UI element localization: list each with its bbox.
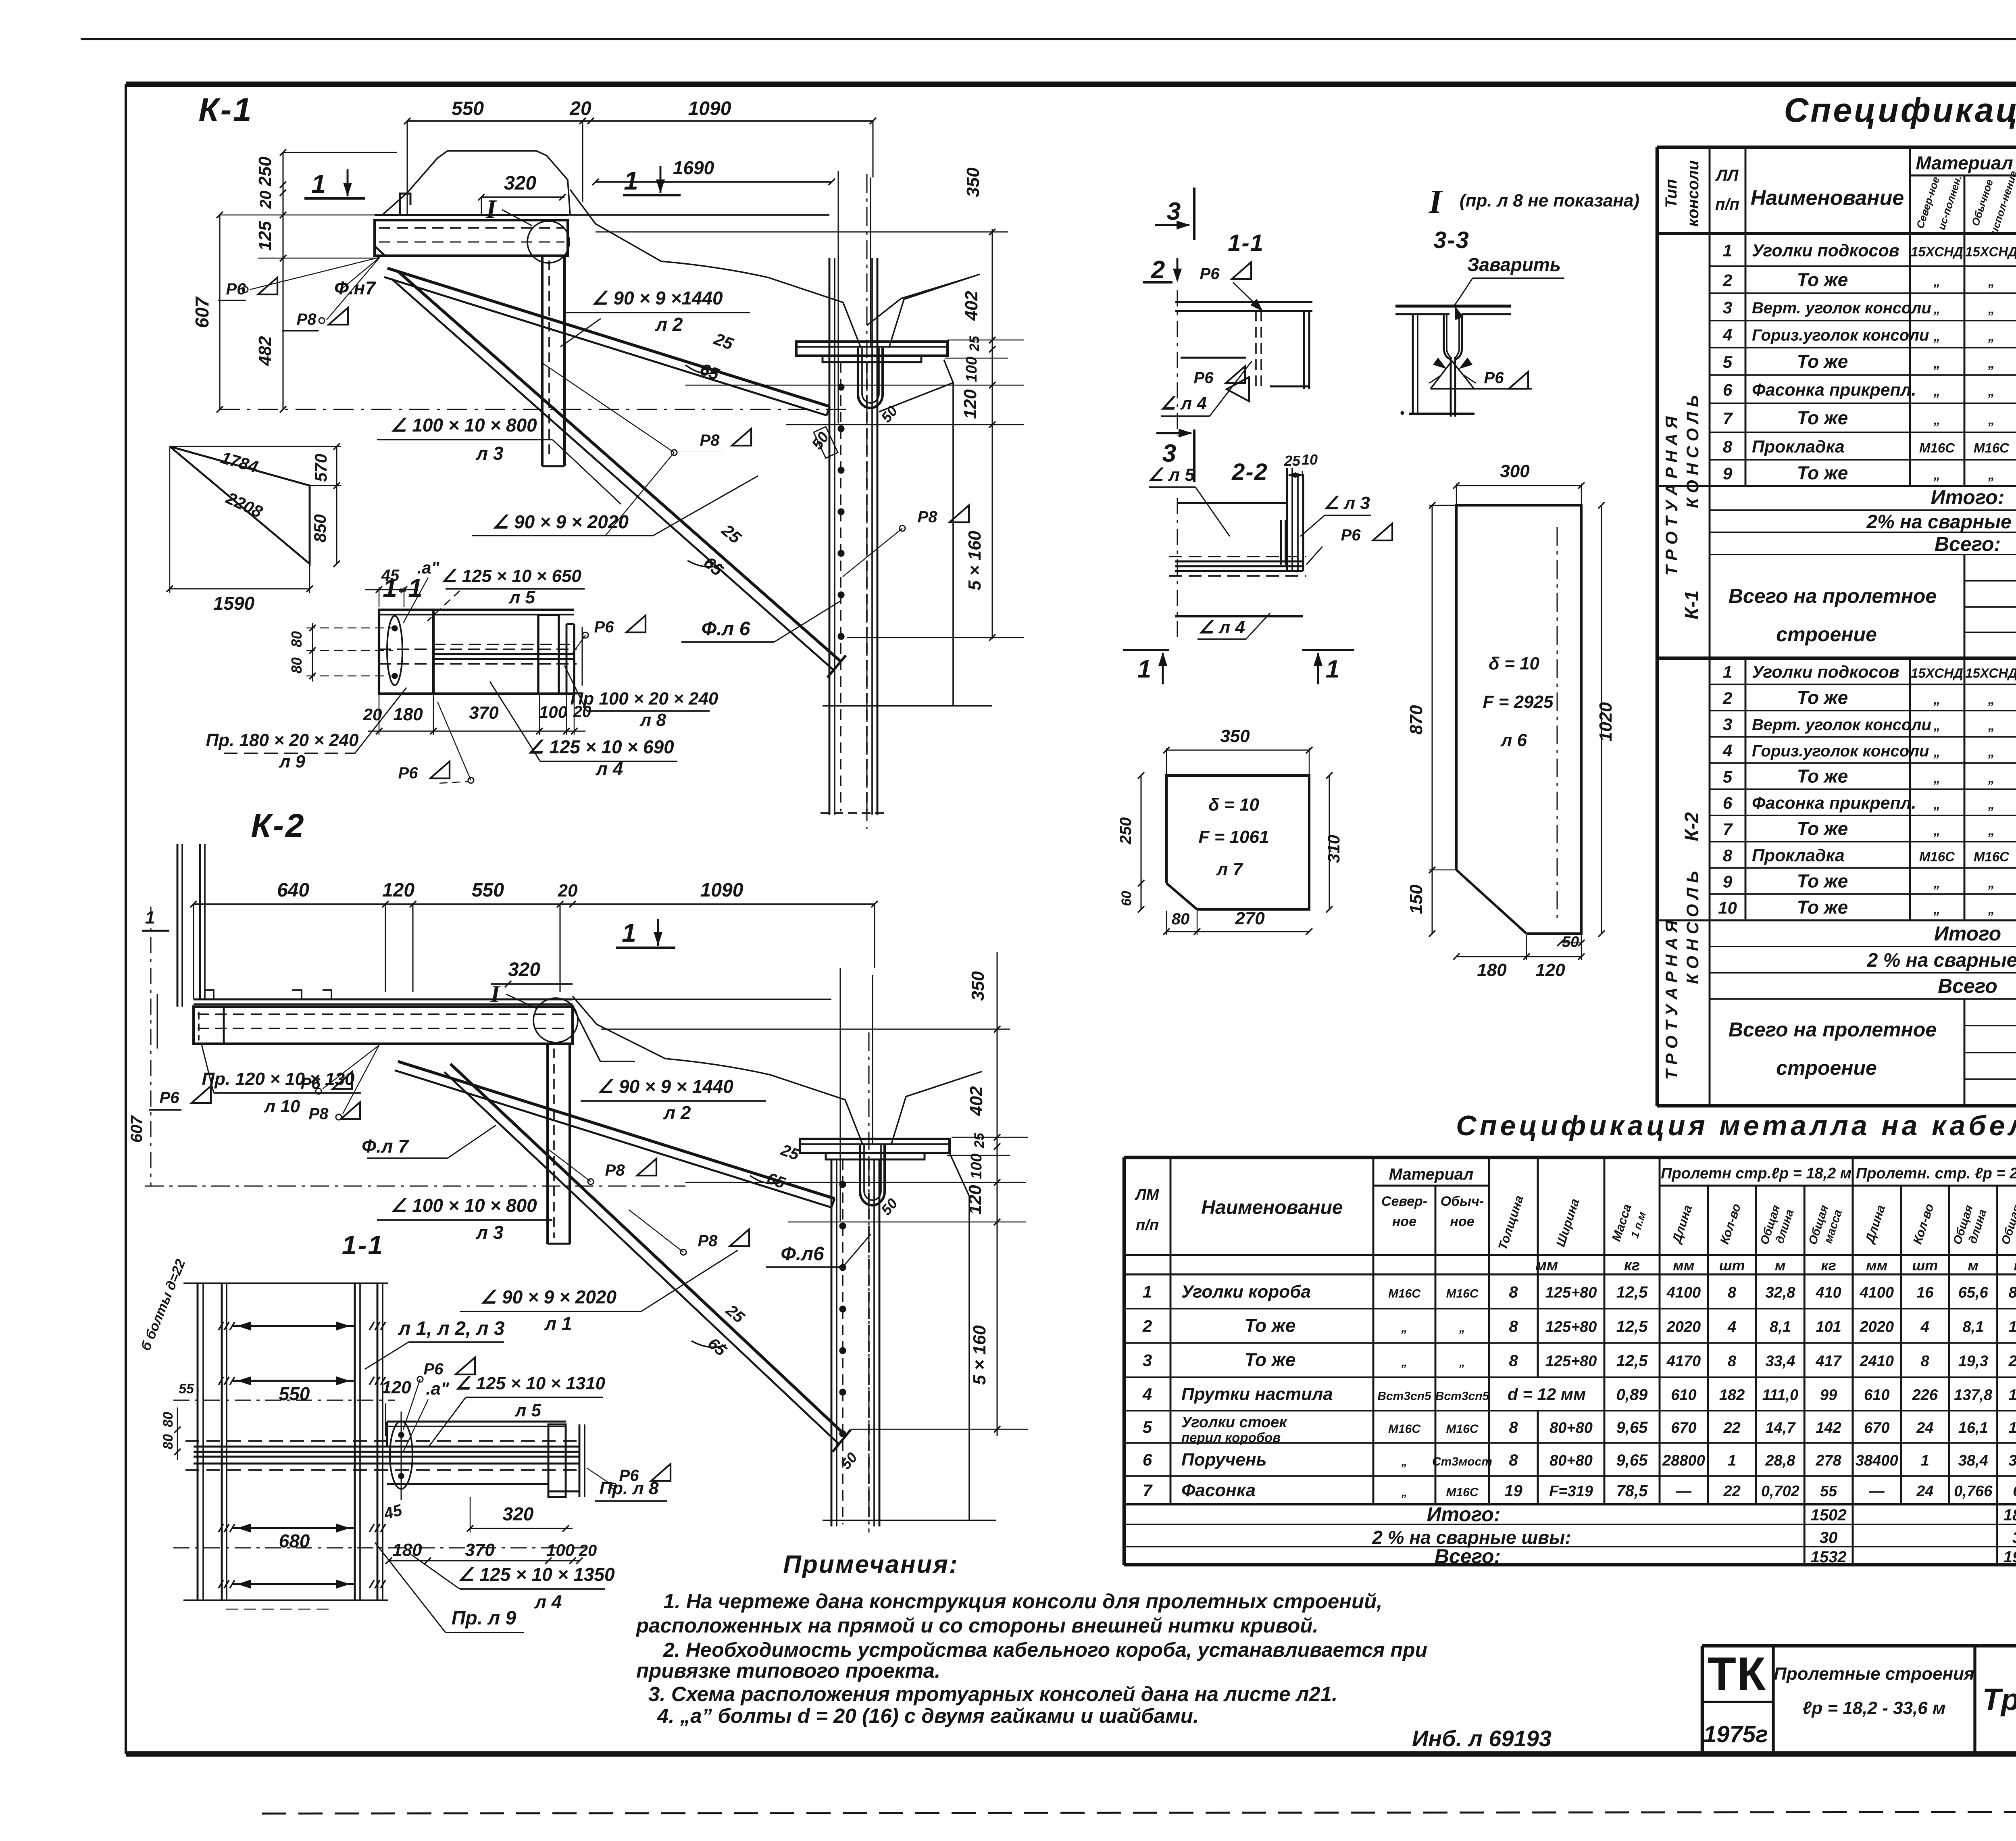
svg-text:850: 850	[310, 514, 329, 542]
svg-text:270: 270	[1235, 909, 1265, 928]
fasonka dims	[336, 446, 337, 564]
svg-text:300: 300	[1500, 461, 1530, 481]
svg-text:М16С: М16С	[1388, 1422, 1421, 1436]
svg-text:1-1: 1-1	[342, 1230, 384, 1260]
svg-text:402: 402	[962, 291, 981, 321]
svg-text:125+80: 125+80	[1545, 1353, 1597, 1370]
svg-text:100: 100	[968, 1153, 985, 1179]
svg-text:Ф.л 7: Ф.л 7	[362, 1136, 409, 1157]
svg-text:Т Р О Т У А Р Н А Я: Т Р О Т У А Р Н А Я	[1662, 416, 1681, 575]
K-2 vertical angle N3	[546, 1044, 549, 1244]
svg-text:1690: 1690	[673, 157, 714, 178]
3-3 center welded verticals	[1444, 314, 1451, 359]
K-1 horizontal extension lines	[596, 231, 1008, 232]
K-1 post bolt dots	[838, 384, 844, 390]
svg-text:1: 1	[624, 166, 638, 195]
K-2 leader fan	[323, 1045, 379, 1089]
svg-text:К-1: К-1	[1681, 590, 1703, 619]
svg-text:∠ л 5: ∠ л 5	[1148, 465, 1195, 485]
svg-text:8: 8	[1723, 437, 1733, 456]
svg-text:4: 4	[1722, 325, 1732, 344]
svg-text:123: 123	[2009, 1387, 2016, 1404]
svg-text:80: 80	[288, 631, 305, 647]
svg-text:I: I	[490, 981, 501, 1007]
svg-text:Вст3сп5: Вст3сп5	[1377, 1390, 1432, 1403]
svg-text:25: 25	[972, 1132, 987, 1149]
svg-text:м: м	[1968, 1257, 1979, 1274]
svg-text:20: 20	[579, 1542, 597, 1560]
svg-text:То же: То же	[1797, 687, 1848, 708]
svg-text:„: „	[1401, 1486, 1408, 1499]
svg-text:F=319: F=319	[1549, 1483, 1593, 1500]
K-2 lower diagonal N1	[450, 1064, 846, 1436]
svg-text:I: I	[1429, 183, 1443, 221]
svg-text:Прокладка: Прокладка	[1752, 437, 1845, 457]
svg-text:180: 180	[1477, 960, 1507, 980]
svg-text:М16С: М16С	[1388, 1287, 1421, 1301]
svg-text:То же: То же	[1245, 1315, 1296, 1336]
svg-text:ЛМ: ЛМ	[1135, 1186, 1160, 1203]
svg-text:„: „	[1988, 356, 1995, 371]
svg-text:182: 182	[1719, 1387, 1745, 1404]
svg-text:„: „	[1933, 412, 1941, 427]
svg-text:2: 2	[1142, 1317, 1152, 1336]
svg-text:350: 350	[1220, 726, 1250, 746]
svg-text:100: 100	[963, 357, 980, 382]
svg-text:„: „	[1988, 876, 1995, 890]
svg-text:370: 370	[465, 1540, 495, 1560]
svg-text:л 2: л 2	[663, 1102, 691, 1123]
1-1K2 bottom edge lines	[183, 1599, 388, 1601]
svg-text:∠ л 3: ∠ л 3	[1323, 493, 1370, 513]
svg-text:870: 870	[1406, 705, 1426, 735]
svg-text:„: „	[1933, 692, 1941, 707]
svg-text:8: 8	[1728, 1353, 1737, 1370]
svg-text:Уголки короба: Уголки короба	[1181, 1282, 1311, 1302]
svg-text:410: 410	[1815, 1284, 1841, 1301]
svg-text:120: 120	[965, 1185, 985, 1215]
svg-text:То же: То же	[1797, 766, 1848, 787]
svg-text:670: 670	[1671, 1420, 1696, 1437]
svg-text:ное: ное	[1392, 1214, 1416, 1229]
1-1K2 deck band	[194, 1446, 579, 1448]
svg-text:15ХСНД: 15ХСНД	[1911, 244, 1963, 259]
svg-text:80: 80	[288, 657, 305, 673]
svg-text:„: „	[1933, 384, 1941, 398]
svg-text:Пролетн стр.ℓр = 18,2 м: Пролетн стр.ℓр = 18,2 м	[1661, 1165, 1851, 1182]
K-2 girder funnel outline above cap	[665, 1059, 863, 1145]
K-1 girder top contour right of deck	[570, 190, 661, 261]
svg-text:80: 80	[160, 1412, 176, 1427]
svg-text:8: 8	[1728, 1284, 1737, 1301]
svg-text:80: 80	[1172, 910, 1190, 928]
3-3 left web	[1412, 314, 1414, 413]
paper top edge line	[81, 38, 2016, 40]
svg-text:8: 8	[1921, 1353, 1930, 1370]
svg-text:кг: кг	[1821, 1257, 1836, 1274]
svg-text:1532: 1532	[1811, 1548, 1847, 1566]
svg-text:80: 80	[160, 1434, 176, 1449]
svg-text:Пр. л 9: Пр. л 9	[452, 1607, 516, 1629]
svg-text:∠ л 4: ∠ л 4	[1198, 617, 1245, 637]
svg-text:Р8: Р8	[698, 1232, 718, 1250]
svg-text:Р6: Р6	[1200, 265, 1220, 283]
svg-text:28800: 28800	[1662, 1452, 1705, 1469]
svg-text:М16С: М16С	[1446, 1287, 1479, 1301]
svg-text:2: 2	[1722, 271, 1732, 290]
svg-text:Инб. л 69193: Инб. л 69193	[1412, 1726, 1552, 1751]
svg-text:Гориз.уголок консоли: Гориз.уголок консоли	[1752, 327, 1929, 344]
svg-text:(пр. л 8 не показана): (пр. л 8 не показана)	[1460, 191, 1639, 211]
K-2 girder top flange line	[573, 999, 831, 1000]
K-1 deck plate	[375, 214, 568, 216]
1-1K1 top plates	[379, 609, 574, 611]
svg-text:2020: 2020	[1859, 1319, 1894, 1336]
svg-text:7: 7	[1723, 820, 1733, 839]
svg-text:33,4: 33,4	[1765, 1353, 1795, 1370]
svg-text:2: 2	[1722, 689, 1732, 708]
svg-text:38,4: 38,4	[1958, 1452, 1988, 1469]
svg-text:„: „	[1988, 771, 1995, 786]
1-1K1 horizontal band	[433, 644, 574, 645]
svg-text:δ = 10: δ = 10	[1489, 654, 1539, 673]
svg-text:Р6: Р6	[398, 764, 419, 782]
svg-text:9,65: 9,65	[1616, 1451, 1648, 1469]
K-2 top dim chain 640 120 550 20 1090	[194, 903, 875, 905]
svg-text:То же: То же	[1245, 1349, 1296, 1370]
svg-text:417: 417	[1815, 1353, 1842, 1370]
svg-text:л 5: л 5	[508, 588, 535, 607]
svg-text:л 1, л 2, л 3: л 1, л 2, л 3	[398, 1318, 504, 1339]
svg-text:∠ 125 × 10 × 1310: ∠ 125 × 10 × 1310	[455, 1374, 606, 1393]
svg-text:„: „	[1401, 1322, 1408, 1335]
K-1 diagonal brace N2 (L90x9x1440)	[387, 268, 830, 407]
svg-text:„: „	[1933, 902, 1941, 917]
1-1K1 left plate with slot	[379, 610, 433, 694]
svg-text:1: 1	[1137, 655, 1151, 683]
svg-text:3: 3	[1143, 1351, 1152, 1370]
svg-text:100: 100	[539, 703, 567, 721]
svg-text:12,5: 12,5	[1616, 1284, 1648, 1301]
K-2 upper diagonal N2	[398, 1061, 835, 1199]
svg-text:65,6: 65,6	[1958, 1284, 1989, 1301]
svg-text:„: „	[1401, 1455, 1408, 1468]
svg-text:„: „	[1933, 823, 1941, 838]
svg-text:10: 10	[1718, 899, 1737, 917]
plate L6 drawing	[1456, 505, 1581, 934]
1-1K2 top edge	[183, 1282, 388, 1284]
svg-text:К-1: К-1	[198, 92, 253, 128]
svg-text:Пр 100 × 20 × 240: Пр 100 × 20 × 240	[571, 689, 719, 709]
svg-text:ТК: ТК	[1708, 1647, 1766, 1700]
1-1K2 left rails	[197, 1282, 199, 1600]
svg-text:л 4: л 4	[534, 1591, 562, 1612]
svg-text:24: 24	[1916, 1483, 1933, 1500]
svg-text:Фасонка прикрепл.: Фасонка прикрепл.	[1752, 380, 1916, 400]
svg-text:2020: 2020	[1666, 1319, 1701, 1336]
plate L7 drawing	[1166, 776, 1309, 909]
K-2 post bolt dots	[839, 1181, 846, 1188]
svg-text:„: „	[1933, 718, 1941, 733]
svg-text:250: 250	[255, 156, 275, 187]
svg-text:л 8: л 8	[639, 710, 666, 730]
svg-text:16,1: 16,1	[1958, 1420, 1988, 1437]
svg-text:Вст3сп5: Вст3сп5	[1435, 1390, 1490, 1403]
K-2 vertical extension lines above cap	[839, 968, 841, 1221]
svg-text:Верт. уголок консоли: Верт. уголок консоли	[1752, 299, 1931, 317]
K-2 U-bolt	[860, 1145, 885, 1205]
1-1K2 bolt arrow rows	[232, 1325, 355, 1327]
svg-text:1502: 1502	[1811, 1506, 1847, 1524]
svg-text:0,702: 0,702	[1761, 1483, 1799, 1500]
svg-text:строение: строение	[1776, 1057, 1877, 1079]
K-2 left overhang dims	[156, 994, 158, 1049]
svg-text:∠ 125 × 10 × 690: ∠ 125 × 10 × 690	[527, 736, 674, 757]
paper bottom dashed edge line	[262, 1812, 2016, 1814]
svg-text:Итого:: Итого:	[1427, 1503, 1501, 1526]
svg-text:120: 120	[382, 880, 414, 901]
svg-text:М16С: М16С	[1446, 1486, 1479, 1499]
svg-text:1: 1	[1728, 1452, 1736, 1469]
svg-text:Спецификация металла на каб: Спецификация металла на кабельные короба	[1456, 1110, 2016, 1141]
svg-text:Фасонка прикрепл.: Фасонка прикрепл.	[1752, 794, 1916, 813]
svg-text:640: 640	[277, 880, 309, 901]
svg-text:„: „	[1988, 718, 1995, 733]
svg-text:привязке типового проекта.: привязке типового проекта.	[636, 1659, 940, 1682]
svg-text:То же: То же	[1797, 407, 1848, 428]
svg-text:3-3: 3-3	[1433, 227, 1470, 253]
K-1 deck slab outline (hump)	[382, 151, 570, 215]
K-1 dim 1690	[596, 181, 832, 183]
svg-text:80+80: 80+80	[1549, 1452, 1593, 1469]
svg-text:142: 142	[1816, 1420, 1841, 1437]
svg-text:„: „	[1933, 467, 1941, 482]
TK cell	[1702, 1701, 1773, 1703]
svg-text:5 × 160: 5 × 160	[965, 530, 985, 590]
svg-text:Пр. 180 × 20 × 240: Пр. 180 × 20 × 240	[206, 730, 359, 750]
svg-text:л 5: л 5	[514, 1401, 541, 1420]
K-2 right dim chain	[996, 952, 998, 1436]
svg-text:402: 402	[966, 1086, 986, 1116]
svg-text:241: 241	[2008, 1353, 2016, 1370]
svg-text:16: 16	[1916, 1284, 1934, 1301]
svg-text:Спецификация металла: Спецификация металла	[1784, 91, 2016, 129]
svg-text:45: 45	[381, 567, 400, 584]
fasonka plate diagram	[170, 446, 310, 564]
svg-text:1090: 1090	[700, 880, 744, 901]
svg-text:„: „	[1988, 301, 1995, 316]
svg-text:∠ 100 × 10 × 800: ∠ 100 × 10 × 800	[390, 1195, 537, 1216]
svg-text:„: „	[1933, 771, 1941, 786]
K-1 U-bolt under cap	[858, 348, 883, 408]
svg-text:100: 100	[546, 1541, 575, 1560]
svg-text:55: 55	[1820, 1483, 1837, 1500]
svg-text:4170: 4170	[1666, 1353, 1701, 1370]
K-2 girder post verticals	[831, 1159, 833, 1526]
svg-text:14,7: 14,7	[1765, 1420, 1796, 1437]
svg-text:4: 4	[1722, 741, 1732, 760]
svg-text:расположенных на прямой и: расположенных на прямой и со стороны вне…	[635, 1614, 1318, 1637]
1-1K1 bottom dims 20 180 370 100 20	[368, 730, 585, 732]
svg-text:Итого:: Итого:	[1931, 486, 2005, 509]
svg-text:7: 7	[1143, 1481, 1153, 1500]
svg-text:1: 1	[1921, 1452, 1929, 1469]
svg-text:Р6: Р6	[301, 1075, 321, 1093]
svg-text:мм: мм	[1866, 1257, 1887, 1274]
3-3 drawing flange	[1395, 304, 1511, 307]
svg-text:„: „	[1988, 902, 1995, 917]
svg-text:610: 610	[1671, 1387, 1696, 1404]
svg-text:2. Необходимость устройства: 2. Необходимость устройства кабельного к…	[663, 1639, 1427, 1661]
svg-text:22: 22	[1723, 1483, 1740, 1500]
K-2 girder outline upper right	[573, 996, 665, 1059]
svg-text:„: „	[1988, 412, 1995, 427]
svg-text:Р6: Р6	[1194, 369, 1214, 387]
svg-text:180: 180	[393, 705, 423, 724]
svg-text:То же: То же	[1797, 269, 1848, 290]
svg-text:То же: То же	[1797, 818, 1848, 839]
svg-text:155: 155	[2009, 1420, 2016, 1437]
svg-text:0,89: 0,89	[1616, 1386, 1648, 1404]
svg-text:d = 12 мм: d = 12 мм	[1508, 1385, 1586, 1404]
svg-text:9,65: 9,65	[1616, 1419, 1648, 1437]
svg-text:371: 371	[2009, 1452, 2016, 1469]
svg-text:9: 9	[1723, 464, 1733, 483]
1-1K2 right bracket	[387, 1421, 566, 1423]
svg-text:„: „	[1988, 744, 1995, 759]
svg-text:—: —	[1676, 1483, 1692, 1500]
svg-text:38400: 38400	[1856, 1452, 1898, 1469]
svg-text:Т Р О Т У А Р Н А Я: Т Р О Т У А Р Н А Я	[1662, 920, 1681, 1080]
svg-text:1: 1	[1723, 241, 1732, 260]
mid 2-2 drawing	[1177, 502, 1288, 504]
K-1 top dim chain 550-20-1090	[407, 120, 873, 122]
1-1K2 centerlines	[173, 1399, 395, 1401]
svg-text:670: 670	[1864, 1420, 1889, 1437]
svg-text:К-2: К-2	[251, 807, 305, 844]
K-1 vertical extension lines above cap	[837, 171, 839, 423]
svg-text:6: 6	[1723, 380, 1733, 399]
svg-text:.а": .а"	[417, 558, 440, 577]
3-3 weld arrows	[1429, 375, 1441, 383]
K-1 girder web outline	[867, 277, 973, 325]
svg-text:350: 350	[963, 167, 983, 197]
K-2 horizontal extension lines	[601, 1028, 1010, 1030]
svg-text:мм: мм	[1673, 1257, 1694, 1274]
svg-text:„: „	[1933, 301, 1941, 316]
svg-text:Тип: Тип	[1662, 179, 1680, 208]
svg-text:∠ л 4: ∠ л 4	[1160, 394, 1207, 413]
K-2 wall base angles	[205, 990, 214, 999]
svg-text:180: 180	[392, 1540, 422, 1560]
svg-text:∠ 90 × 9 × 2020: ∠ 90 × 9 × 2020	[480, 1286, 616, 1307]
svg-text:3. Схема расположения тротуа: 3. Схема расположения тротуарных консоле…	[648, 1683, 1337, 1705]
svg-text:Поручень: Поручень	[1181, 1450, 1267, 1470]
svg-text:Уголки подкосов: Уголки подкосов	[1752, 663, 1899, 682]
K-1 left dim chain	[219, 215, 220, 409]
svg-text:Север-: Север-	[1381, 1194, 1427, 1209]
svg-text:п/п: п/п	[1136, 1217, 1159, 1234]
svg-text:125: 125	[255, 221, 275, 251]
svg-text:8: 8	[1509, 1352, 1518, 1370]
svg-text:Ст3мост: Ст3мост	[1432, 1455, 1492, 1468]
svg-text:∠ 125 × 10 × 1350: ∠ 125 × 10 × 1350	[458, 1564, 615, 1585]
svg-text:Итого: Итого	[1934, 922, 2001, 945]
K-2 girder web outline	[573, 1007, 635, 1061]
svg-text:∠ 100 × 10 × 800: ∠ 100 × 10 × 800	[390, 415, 537, 436]
svg-text:8: 8	[1509, 1318, 1518, 1336]
mid 1-1 drawing	[1175, 301, 1312, 303]
svg-text:20: 20	[569, 98, 591, 119]
svg-text:„: „	[1933, 876, 1941, 890]
svg-text:∠ 125 × 10 × 650: ∠ 125 × 10 × 650	[441, 566, 581, 586]
svg-text:Уголки подкосов: Уголки подкосов	[1752, 241, 1899, 261]
svg-text:60: 60	[1119, 891, 1134, 906]
title block outer	[1702, 1644, 2016, 1648]
svg-text:6: 6	[1723, 794, 1733, 813]
svg-text:78,5: 78,5	[1616, 1482, 1648, 1500]
svg-text:1020: 1020	[1596, 702, 1616, 742]
svg-text:Всего на пролетное: Всего на пролетное	[1729, 585, 1937, 607]
svg-text:„: „	[1459, 1356, 1465, 1369]
svg-text:Наименование: Наименование	[1751, 186, 1904, 210]
svg-text:Верт. уголок консоли: Верт. уголок консоли	[1752, 716, 1931, 734]
svg-text:8: 8	[1509, 1419, 1518, 1437]
svg-text:Фасонка: Фасонка	[1181, 1480, 1256, 1500]
svg-text:„: „	[1988, 467, 1995, 482]
svg-text:1: 1	[311, 169, 326, 198]
svg-text:л 3: л 3	[476, 1222, 504, 1243]
svg-text:перил коробов: перил коробов	[1181, 1430, 1281, 1445]
svg-text:Р6: Р6	[1341, 526, 1361, 544]
svg-text:„: „	[1933, 329, 1941, 344]
svg-text:М16С: М16С	[1919, 849, 1955, 864]
svg-text:1: 1	[1326, 655, 1339, 683]
plate L7 dims	[1166, 749, 1309, 751]
svg-text:К О Н С О Л Ь: К О Н С О Л Ь	[1683, 395, 1702, 508]
svg-text:25: 25	[967, 336, 982, 352]
svg-text:Всего на пролетное: Всего на пролетное	[1729, 1018, 1937, 1041]
K-2 wall verticals	[177, 844, 179, 1007]
svg-text:1908: 1908	[2004, 1548, 2016, 1566]
K-2 deck plates	[194, 999, 573, 1001]
svg-text:4. „а” болты d = 20 (16) с: 4. „а” болты d = 20 (16) с двумя гайками…	[657, 1704, 1199, 1727]
1-1K1 right clamp bars	[537, 615, 539, 694]
svg-text:310: 310	[1324, 835, 1343, 863]
svg-text:5: 5	[1723, 352, 1733, 371]
K-1 vertical angle N3	[541, 256, 544, 466]
svg-text:22: 22	[1723, 1420, 1740, 1437]
svg-text:К-2: К-2	[1681, 812, 1703, 841]
svg-text:„: „	[1401, 1356, 1408, 1369]
svg-text:Р6: Р6	[424, 1360, 444, 1378]
svg-text:5: 5	[1723, 767, 1733, 786]
svg-text:1090: 1090	[688, 98, 731, 119]
svg-text:Ф.л6: Ф.л6	[781, 1243, 824, 1265]
svg-text:„: „	[1988, 692, 1995, 707]
svg-text:19: 19	[1504, 1482, 1522, 1500]
svg-text:320: 320	[504, 173, 536, 194]
svg-text:Примечания:: Примечания:	[783, 1551, 958, 1578]
svg-text:л 2: л 2	[655, 314, 683, 335]
svg-text:15ХСНД: 15ХСНД	[1911, 666, 1963, 681]
svg-text:л 7: л 7	[1216, 859, 1244, 879]
svg-text:3: 3	[1723, 715, 1732, 734]
svg-text:125+80: 125+80	[1545, 1319, 1597, 1336]
K-1 right dim chain	[991, 229, 993, 639]
3-3 bottom line	[1409, 413, 1475, 415]
1-1K2 bottom dim row 180 370 100 20	[389, 1560, 579, 1561]
